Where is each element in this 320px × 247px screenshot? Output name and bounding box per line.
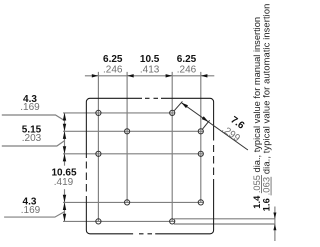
svg-text:.169: .169 bbox=[21, 205, 41, 216]
svg-text:6.25: 6.25 bbox=[103, 54, 123, 65]
svg-text:.413: .413 bbox=[140, 64, 160, 75]
svg-text:.203: .203 bbox=[22, 133, 42, 144]
svg-text:.169: .169 bbox=[20, 102, 40, 113]
svg-text:1.4 .055 dia., typical value f: 1.4 .055 dia., typical value for manual … bbox=[252, 17, 262, 209]
svg-text:.246: .246 bbox=[103, 64, 123, 75]
svg-text:10.5: 10.5 bbox=[140, 54, 160, 65]
svg-text:1.6 .063 dia., typical value f: 1.6 .063 dia., typical value for automat… bbox=[262, 4, 272, 212]
svg-text:.419: .419 bbox=[54, 177, 74, 188]
svg-text:.246: .246 bbox=[177, 64, 197, 75]
svg-text:6.25: 6.25 bbox=[177, 54, 197, 65]
